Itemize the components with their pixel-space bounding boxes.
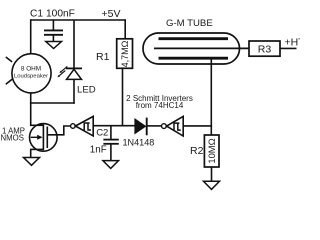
Q1 drain stub [30, 124, 43, 126]
wire left rail to speaker [30, 19, 32, 54]
LED emission arrow 2 [59, 71, 65, 76]
resistor R1 [117, 39, 133, 69]
svg-text:1nF: 1nF [90, 145, 107, 156]
ground under R2 [204, 181, 220, 189]
wire node horizontal [30, 102, 75, 104]
LED emission arrow 1 [61, 66, 67, 71]
tube cathode bottom bar [159, 57, 229, 60]
wire R1 to node [122, 68, 124, 125]
LED D1 [66, 67, 82, 69]
svg-text:8 OHM: 8 OHM [21, 65, 41, 72]
Q1 channel line [42, 125, 44, 151]
transistor Q1 NMOS [30, 124, 58, 152]
resistor R3 [249, 41, 280, 56]
Q1 source stub [30, 148, 43, 150]
wire C1 stub bottom [52, 36, 54, 42]
wire LED rail from +5V [73, 20, 75, 68]
wire node down to MOSFET drain [30, 103, 32, 126]
op-amp U1A schmitt inverter 1 [71, 124, 76, 129]
tube cathode top bar [159, 37, 229, 40]
wire LED bottom [73, 79, 75, 103]
svg-text:Loudspeaker: Loudspeaker [14, 73, 48, 79]
ground under C2 [103, 161, 119, 169]
resistor R2 [204, 135, 219, 167]
wire diode to U1B [148, 125, 162, 127]
wire R2 to ground [211, 167, 213, 181]
svg-text:LED: LED [77, 84, 96, 95]
wire +5V to R1 [124, 19, 126, 39]
wire tube cathode down to node [210, 59, 212, 135]
loudspeaker LS1 [12, 54, 51, 93]
wire U1A input run [93, 125, 135, 127]
capacitor C1 [44, 29, 63, 31]
speaker tick upper-left [6, 57, 12, 62]
wire speaker bottom to node [30, 93, 32, 104]
speaker tick lower-left [6, 79, 12, 84]
svg-text:10MΩ: 10MΩ [206, 138, 217, 163]
tube anode wire to R3 [154, 47, 249, 49]
G-M tube V1 [143, 33, 240, 64]
wire Q1 source to ground [30, 149, 32, 157]
wire U1B input to node [183, 125, 212, 127]
svg-text:R3: R3 [258, 44, 272, 56]
wire C2 to ground [110, 145, 112, 161]
svg-text:+HT: +HT [285, 37, 301, 49]
svg-text:C1: C1 [30, 8, 43, 19]
svg-text:G-M TUBE: G-M TUBE [166, 18, 213, 29]
svg-text:1N4148: 1N4148 [123, 137, 155, 147]
Q1 body arrow [31, 136, 39, 138]
svg-text:NMOS: NMOS [1, 133, 24, 142]
Q1 gate plate [46, 127, 48, 149]
wire Q1 gate to inverter U1A output [47, 126, 70, 135]
diode D2 1N4148 [135, 119, 146, 134]
wire R3 to +HT [280, 47, 297, 49]
svg-text:4,7MΩ: 4,7MΩ [120, 40, 130, 67]
wire top +5V rail [31, 19, 126, 21]
ground under C1 [46, 42, 62, 49]
wire C2 stub [110, 126, 112, 139]
svg-text:from 74HC14: from 74HC14 [136, 101, 184, 110]
wire C1 stub top [52, 20, 54, 30]
U1A hysteresis mark [84, 123, 91, 131]
U1B hysteresis mark [174, 123, 181, 131]
capacitor C2 [103, 139, 118, 141]
svg-text:C2: C2 [96, 128, 108, 139]
svg-text:100nF: 100nF [46, 8, 75, 19]
svg-text:R2: R2 [190, 145, 204, 157]
svg-text:+5V: +5V [102, 8, 121, 20]
op-amp U1B schmitt inverter 2 [162, 124, 167, 129]
svg-text:R1: R1 [96, 51, 110, 63]
ground under Q1 [24, 158, 40, 166]
